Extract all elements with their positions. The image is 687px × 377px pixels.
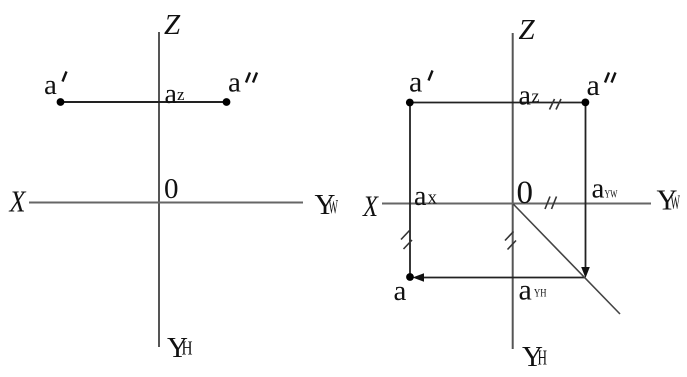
axis Z-YH (right vertical axis) bbox=[512, 33, 514, 349]
svg-text:0: 0 bbox=[517, 175, 534, 211]
svg-text:a: a bbox=[519, 81, 532, 112]
svg-text:z: z bbox=[532, 86, 540, 106]
tick marks on Z axis below O bbox=[505, 232, 514, 241]
tick marks on top line bbox=[550, 99, 555, 110]
svg-text:a: a bbox=[587, 69, 600, 102]
tick marks on horizontal axis right of O bbox=[545, 197, 550, 210]
svg-text:0: 0 bbox=[164, 173, 179, 205]
svg-text:a: a bbox=[409, 66, 422, 99]
point a' (right dot) bbox=[406, 99, 414, 107]
wire a''-down (right vertical of square with arrow) bbox=[585, 103, 587, 269]
svg-text:a: a bbox=[592, 173, 605, 205]
svg-text:X: X bbox=[8, 184, 27, 219]
svg-text:W: W bbox=[671, 192, 681, 214]
svg-text:Z: Z bbox=[519, 14, 536, 46]
svg-text:a: a bbox=[165, 79, 178, 110]
svg-text:Z: Z bbox=[164, 9, 181, 41]
svg-text:a: a bbox=[519, 274, 532, 307]
svg-text:z: z bbox=[177, 85, 185, 104]
svg-text:a: a bbox=[228, 67, 241, 99]
point a (right dot) bbox=[406, 273, 414, 281]
svg-text:YH: YH bbox=[534, 288, 547, 300]
svg-text:a: a bbox=[394, 275, 407, 307]
svg-text:X: X bbox=[362, 190, 379, 223]
svg-text:YW: YW bbox=[605, 187, 618, 201]
wire segment a'-a'' (left) bbox=[60, 101, 227, 103]
svg-text:H: H bbox=[182, 338, 193, 360]
svg-text:a: a bbox=[44, 69, 57, 101]
point a' (left dot) bbox=[57, 98, 65, 106]
axis Z-YH (left vertical axis) bbox=[158, 32, 160, 347]
wire bottom horizontal with left arrow to a bbox=[423, 277, 586, 279]
axis X-YW (right horizontal axis) bbox=[382, 203, 651, 205]
axis X-YW (left horizontal axis) bbox=[29, 202, 303, 204]
point a'' (right dot) bbox=[582, 99, 590, 107]
svg-text:a: a bbox=[414, 181, 427, 212]
wire 45-degree transfer line bbox=[513, 204, 620, 314]
svg-text:x: x bbox=[428, 188, 438, 209]
svg-text:W: W bbox=[329, 196, 339, 218]
wire a'-a'' (top horizontal of square) bbox=[410, 102, 586, 104]
wire a'-a (left vertical of square) bbox=[409, 103, 411, 278]
tick marks on left vertical below axis bbox=[401, 231, 410, 240]
point a'' (left dot) bbox=[223, 98, 231, 106]
svg-text:H: H bbox=[538, 346, 548, 370]
